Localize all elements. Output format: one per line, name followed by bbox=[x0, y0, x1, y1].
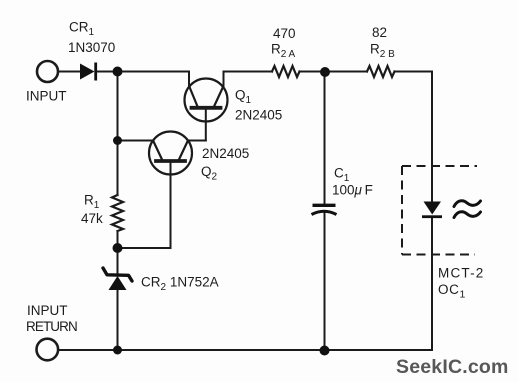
svg-text:2N2405: 2N2405 bbox=[202, 146, 249, 161]
svg-text:1N3070: 1N3070 bbox=[68, 40, 115, 55]
svg-text:INPUT: INPUT bbox=[27, 303, 68, 318]
svg-text:82: 82 bbox=[372, 25, 387, 40]
svg-text:RETURN: RETURN bbox=[26, 319, 77, 334]
svg-text:SeekIC.com: SeekIC.com bbox=[396, 356, 509, 378]
svg-text:INPUT: INPUT bbox=[26, 89, 67, 104]
svg-text:MCT-2: MCT-2 bbox=[438, 266, 485, 281]
svg-text:47k: 47k bbox=[81, 211, 103, 226]
svg-text:100μ F: 100μ F bbox=[332, 183, 373, 198]
svg-text:2N2405: 2N2405 bbox=[235, 108, 282, 123]
svg-text:470: 470 bbox=[273, 26, 296, 41]
